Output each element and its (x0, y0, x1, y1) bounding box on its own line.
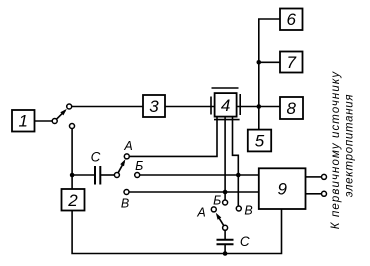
switch S3 pivot contact (223, 225, 228, 230)
switch S3 arrow (217, 215, 224, 226)
wire row V to box9 (129, 191, 259, 193)
switch S3 contact A2 (211, 207, 216, 212)
svg-text:8: 8 (286, 99, 296, 118)
wire box1 to switch S1 pivot (35, 120, 53, 122)
svg-text:К первичному источнику: К первичному источнику (330, 71, 342, 230)
box 9 (259, 168, 306, 209)
svg-text:6: 6 (286, 10, 296, 29)
svg-text:С: С (91, 150, 101, 165)
svg-text:7: 7 (286, 53, 296, 72)
node junction bus-box7 (257, 60, 262, 65)
wire box9 lower terminal (306, 193, 322, 195)
switch S1 pivot contact (52, 119, 57, 124)
wire bus to box7 (259, 61, 280, 63)
svg-text:В: В (121, 197, 129, 211)
svg-text:А: А (123, 139, 132, 153)
box 7 (280, 52, 303, 73)
wire vertical bus right (259, 19, 280, 130)
shield right tick of box4 (239, 94, 241, 115)
svg-text:Б: Б (135, 159, 143, 173)
node junction bus-box8 (257, 104, 262, 109)
svg-text:4: 4 (221, 96, 230, 115)
capacitor C1 plates (94, 166, 96, 185)
wire capacitor C2 to bottom wire (224, 244, 226, 253)
switch S3 contact V2 (236, 206, 241, 211)
wire bottom: box2 to box9 (72, 209, 281, 254)
switch S2 contact V (124, 190, 129, 195)
svg-text:В: В (244, 204, 252, 218)
switch S1 arrow (57, 110, 66, 119)
node junction row V / middle output (223, 190, 228, 195)
box 4 (215, 93, 237, 117)
terminal circle lower (322, 191, 327, 196)
box 5 (248, 130, 271, 152)
shield left tick of box4 (210, 97, 212, 115)
switch S1 upper contact (67, 104, 72, 109)
wire junction to capacitor C1 (72, 174, 95, 176)
node junction row B1 / right output (236, 173, 241, 178)
wire box3 to box4 (165, 106, 215, 108)
shield bottom line of box4 (214, 119, 240, 121)
wire capacitor C1 to switch S2 pivot (100, 174, 114, 176)
wire box4 middle output down to contact B2 (224, 117, 226, 200)
switch S2 pivot contact (114, 173, 119, 178)
wire row A to box4 left output (129, 117, 217, 157)
box 8 (280, 97, 303, 119)
wire box9 upper terminal (306, 176, 322, 178)
wire box4 right output with jog down to contact V2 (233, 117, 239, 206)
svg-text:С: С (240, 234, 250, 249)
svg-text:2: 2 (67, 191, 78, 210)
wire row B1 to box9 (140, 174, 259, 176)
node junction bottom wire / C2 (223, 251, 228, 256)
switch S2 contact B1 (135, 173, 140, 178)
svg-text:9: 9 (277, 180, 287, 199)
switch S1 lower contact (70, 124, 75, 129)
wire S1 lower contact down to box2 (71, 129, 73, 190)
wire box4 to box8 (237, 106, 280, 108)
box 3 (143, 95, 165, 117)
label: to primary power source (rotated) (330, 71, 356, 230)
svg-text:электропитания: электропитания (344, 94, 356, 197)
capacitor C2 plates (217, 239, 234, 241)
box 2 (62, 189, 85, 211)
wire S3 pivot down to capacitor C2 (224, 230, 226, 240)
svg-text:А: А (196, 206, 205, 220)
switch S2 contact A (124, 154, 129, 159)
box 1 (12, 110, 35, 132)
svg-text:1: 1 (18, 112, 27, 131)
switch S3 contact B2 (223, 200, 228, 205)
svg-text:5: 5 (255, 132, 265, 151)
shield top line of box4 (212, 87, 239, 89)
node junction left vertical / capacitor C1 (70, 173, 75, 178)
switch S2 arrow (118, 162, 124, 173)
svg-text:3: 3 (149, 97, 159, 116)
box 6 (280, 9, 303, 31)
wire main top: S1 contact to box3 (72, 106, 143, 108)
svg-text:Б: Б (213, 193, 221, 207)
terminal circle upper (322, 174, 327, 179)
